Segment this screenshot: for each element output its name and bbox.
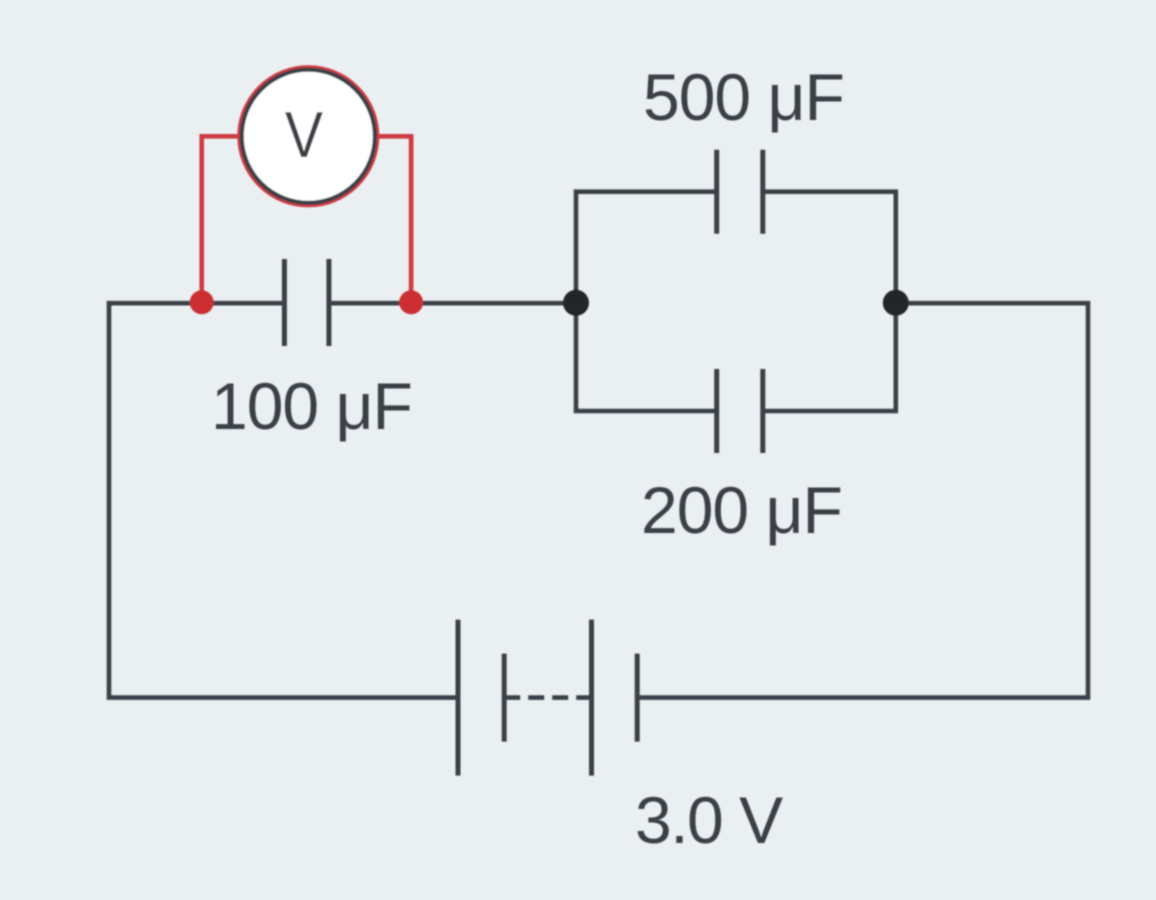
battery B1 short plate left: [502, 654, 507, 742]
battery B1 short plate right: [635, 654, 640, 742]
capacitor C3 200uF plates: [717, 369, 763, 453]
wire voltmeter right red lead: [374, 136, 411, 303]
svg-text:200 μF: 200 μF: [641, 473, 842, 547]
voltmeter V inner dark ring: [242, 70, 375, 203]
node junction right: [883, 290, 909, 316]
wire parallel loop left half: [576, 192, 717, 411]
voltmeter V outer red ring: [239, 67, 377, 205]
svg-text:500 μF: 500 μF: [643, 60, 844, 134]
wire voltmeter left red lead: [202, 136, 243, 303]
battery B1 long plate left: [456, 620, 461, 776]
wire parallel loop right half: [763, 192, 896, 411]
svg-text:V: V: [285, 99, 323, 171]
node red terminal right: [399, 290, 423, 314]
battery dashed link: [504, 695, 591, 700]
svg-text:100 μF: 100 μF: [211, 369, 412, 443]
svg-text:3.0 V: 3.0 V: [635, 783, 783, 857]
node junction left: [563, 290, 589, 316]
node red terminal left: [190, 290, 214, 314]
capacitor C2 500uF plates: [717, 150, 763, 234]
battery B1 long plate right: [589, 620, 594, 776]
wire middle segment: [329, 301, 576, 306]
capacitor C1 100uF plates: [284, 259, 329, 346]
wire main loop: [109, 303, 1088, 697]
